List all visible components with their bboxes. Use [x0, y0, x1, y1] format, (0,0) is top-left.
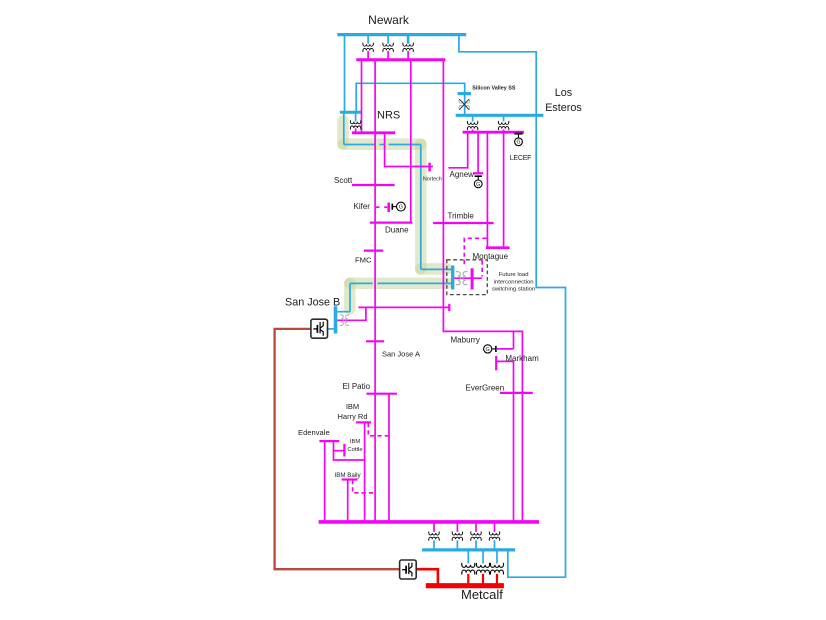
wire Los Esteros to Montague circuit 2: [503, 133, 505, 247]
bus Future switching station 230kV side: [451, 266, 454, 290]
svg-text:Newark: Newark: [368, 13, 410, 27]
wire Los Esteros transformer T5 HV stub: [503, 117, 505, 122]
svg-text:Maburry: Maburry: [451, 335, 480, 344]
wire circuit 2 San Jose B to Future station (cyan in highlight): [337, 283, 451, 311]
bus EverGreen: [500, 392, 533, 394]
wire Metcalf 230 transformer stub c: [475, 540, 477, 548]
wire Los Esteros to Montague circuit 1: [486, 133, 488, 247]
wire San Jose B to Trimble-corner feeder: [358, 306, 449, 308]
svg-text:Future load: Future load: [499, 272, 529, 278]
generator Kifer: [392, 202, 405, 211]
bus NRS 115kV: [352, 131, 395, 134]
svg-text:San Jose B: San Jose B: [285, 296, 340, 308]
bus Agnew generator (tick): [473, 172, 483, 174]
transformer Metcalf 500/230 a: [462, 563, 475, 574]
bus Newark 115kV: [356, 58, 445, 61]
bus Nortech (terminal tick): [428, 163, 430, 172]
svg-text:San Jose A: San Jose A: [382, 350, 420, 359]
svg-text:El Patio: El Patio: [343, 382, 371, 391]
wire Markham to Maburry-EverGreen feeder: [496, 361, 513, 522]
svg-text:G: G: [516, 140, 520, 146]
wire NRS to Nortech: [385, 134, 433, 167]
wire Metcalf SVC to 500kV bus: [416, 569, 438, 583]
wire San Jose B SVC to Metcalf SVC (dark red tie): [275, 329, 400, 569]
bus South Valley 115kV (bottom): [319, 520, 539, 524]
generator Maburry: [484, 345, 496, 353]
svg-text:interconnection: interconnection: [494, 279, 534, 285]
bus FMC: [364, 250, 383, 252]
transformer South bus a: [429, 532, 439, 541]
wire South bus transformer stub a: [433, 523, 435, 532]
label IBM Cottle: [347, 439, 362, 453]
bus Markham: [495, 356, 497, 370]
bus Future switching station 115kV side: [471, 268, 474, 289]
wire Metcalf 230 transformer stub d: [494, 540, 496, 548]
svg-text:Trimble: Trimble: [448, 212, 475, 221]
svg-text:Duane: Duane: [385, 225, 409, 234]
svg-text:NRS: NRS: [377, 110, 400, 122]
svg-text:Markham: Markham: [505, 354, 539, 363]
bus Edenvale: [319, 440, 339, 442]
svg-text:Edenvale: Edenvale: [298, 428, 330, 437]
wire San Jose B transformer link: [337, 307, 366, 320]
wire Metcalf 500 transformer LV stub b: [482, 574, 484, 584]
wire Los Esteros transformer T4 HV stub: [472, 117, 474, 122]
generator LECEF: [514, 134, 522, 146]
wire Maburry generator feeder: [497, 331, 514, 349]
svg-text:switching station: switching station: [492, 287, 535, 293]
label IBM Harry Rd: [337, 402, 367, 421]
wire Newark transformer T3 LV stub: [407, 51, 409, 60]
bus Metcalf 500kV: [426, 583, 504, 588]
wire Montague to Future station (dashed): [464, 238, 486, 276]
transformer Newark T2: [383, 43, 393, 52]
wire Newark transformer T1 LV stub: [367, 51, 369, 60]
bus Trimble: [433, 222, 494, 224]
svg-text:FMC: FMC: [355, 255, 372, 264]
wire Newark transformer T2 LV stub: [387, 51, 389, 60]
bus Montague: [486, 246, 510, 249]
wire Metcalf 500 transformer HV stub b: [482, 551, 484, 564]
transformer South bus b: [452, 532, 462, 541]
wire IBM Cottle tap: [334, 450, 345, 452]
svg-text:Agnew: Agnew: [450, 170, 475, 179]
wire Metcalf 500 transformer HV stub a: [467, 551, 469, 564]
svg-text:Nortech: Nortech: [423, 176, 442, 182]
SVC converter box San Jose B: [311, 319, 328, 338]
wire Newark-Scott-Duane-FMC-SanJoseA-ElPatio main feeder: [374, 60, 376, 522]
future load interconnection switching station (dashed outline): [447, 260, 488, 295]
wire Newark to NRS 115kV feeder: [361, 60, 363, 132]
bus Kifer: [387, 203, 390, 212]
bus El Patio: [366, 393, 397, 395]
svg-text:EverGreen: EverGreen: [466, 383, 505, 392]
wire Metcalf 230 transformer stub b: [456, 540, 458, 548]
transformer South bus c: [471, 532, 481, 541]
bus San Jose A: [366, 340, 384, 342]
wire circuit 1 NRS to Future station (cyan in highlight): [344, 114, 452, 270]
bus IBM Cottle: [343, 444, 345, 457]
wire Metcalf 500 transformer LV stub a: [467, 574, 469, 584]
cross-out X on Silicon Valley SS transformer: [459, 99, 469, 110]
wire South bus transformer stub c: [475, 523, 477, 532]
bus NRS 230kV: [340, 111, 362, 114]
wire NRS transformer HV stub: [355, 114, 357, 122]
transformer Newark T3: [403, 43, 413, 52]
wire Edenvale south feeder: [324, 441, 326, 522]
svg-text:G: G: [399, 205, 403, 211]
wire Los Esteros to Metcalf (230kV, east loop): [508, 115, 566, 577]
transformer Future switching station (gray): [456, 272, 467, 285]
wire Los Esteros transformer T5 LV stub: [503, 130, 505, 132]
wire Newark transformer T3 HV stub: [407, 35, 410, 44]
wire SVC box to San Jose B bus: [327, 328, 334, 330]
wire Newark to Duane feeder: [410, 60, 412, 223]
bus Los Esteros 230kV: [456, 114, 544, 117]
wire El Patio south feeder: [388, 394, 390, 522]
wire Newark-Trimble-Maburry feeder: [443, 60, 522, 522]
label Los Esteros: [545, 87, 582, 114]
svg-text:Cottle: Cottle: [347, 447, 362, 453]
highlight band circuit NRS-Future (path 1): [343, 121, 447, 269]
svg-text:IBM: IBM: [350, 439, 360, 445]
transformer Metcalf 500/230 c: [491, 563, 504, 574]
svg-text:Esteros: Esteros: [545, 102, 582, 114]
wire Kifer tap (dashed, future): [375, 206, 387, 208]
wire Future station 115kV link: [454, 277, 482, 279]
svg-text:Metcalf: Metcalf: [461, 587, 503, 602]
svg-text:IBM: IBM: [346, 402, 359, 411]
wire Los Esteros to Agnew: [448, 133, 467, 168]
wire South bus transformer stub b: [456, 523, 458, 532]
wire Silicon Valley SS to Los Esteros stub: [464, 95, 466, 114]
transformer Los Esteros T4: [467, 121, 477, 130]
wire Newark to NRS (230kV): [344, 35, 346, 111]
bus IBM Harry Rd: [356, 421, 371, 423]
bus Newark 230kV: [337, 33, 466, 36]
bus Duane: [370, 222, 413, 224]
wire NRS to Silicon Valley SS tap: [356, 83, 465, 111]
transformer San Jose B (gray): [340, 315, 349, 325]
svg-text:Silicon Valley SS: Silicon Valley SS: [472, 85, 516, 91]
wire Newark transformer T2 HV stub: [387, 35, 389, 44]
svg-text:G: G: [476, 182, 480, 188]
terminal tick San Jose B feeder east end: [448, 304, 450, 311]
bus Metcalf 230kV: [422, 548, 515, 551]
bus Silicon Valley SS: [458, 92, 471, 95]
transformer NRS: [350, 121, 360, 130]
wire Metcalf 500 transformer LV stub c: [496, 574, 498, 584]
wire Los Esteros transformer T4 LV stub: [472, 130, 474, 132]
bus San Jose B 230kV: [334, 306, 338, 333]
svg-text:Scott: Scott: [334, 176, 353, 185]
highlight band circuit SanJoseB-Future (path 2): [350, 283, 447, 309]
svg-text:LECEF: LECEF: [510, 155, 532, 162]
bus Maburry (corner segment): [442, 330, 444, 332]
bus IBM Baily: [342, 478, 358, 480]
wire IBM Harry Rd tap (dashed, future): [368, 423, 388, 436]
generator Agnew: [474, 176, 482, 188]
transformer Metcalf 500/230 b: [477, 563, 490, 574]
label Future load interconnection switching station: [492, 272, 535, 293]
wire Agnew generator feeder: [477, 133, 479, 173]
wire Newark transformer T1 HV stub: [367, 35, 369, 44]
bus Scott: [352, 184, 395, 186]
wire Newark to Los Esteros (230kV): [459, 35, 536, 115]
wire Edenvale to IBM HarryRd feeder: [334, 441, 365, 460]
transformer Silicon Valley SS (future, crossed out): [459, 100, 469, 109]
svg-text:Montague: Montague: [473, 252, 509, 261]
transformer South bus d: [489, 532, 499, 541]
wire Metcalf 500 transformer HV stub c: [496, 551, 498, 564]
SVC converter box Metcalf: [400, 560, 417, 579]
transformer Newark T1: [363, 43, 373, 52]
bus Los Esteros 115kV: [463, 131, 524, 134]
svg-text:Kifer: Kifer: [354, 202, 371, 211]
wire NRS transformer LV stub: [355, 128, 357, 132]
wire South bus transformer stub d: [494, 523, 496, 532]
svg-text:Los: Los: [555, 87, 573, 99]
wire IBM Harry Rd south feeder: [364, 422, 366, 522]
svg-text:Harry Rd: Harry Rd: [337, 412, 367, 421]
svg-text:G: G: [486, 347, 490, 353]
wire IBM Baily tap (dashed, future): [353, 480, 376, 493]
wire IBM Baily south feeder: [347, 480, 349, 522]
transformer Los Esteros T5: [498, 121, 508, 130]
wire Metcalf 230 transformer stub a: [433, 540, 435, 548]
svg-text:IBM Baily: IBM Baily: [335, 472, 362, 479]
